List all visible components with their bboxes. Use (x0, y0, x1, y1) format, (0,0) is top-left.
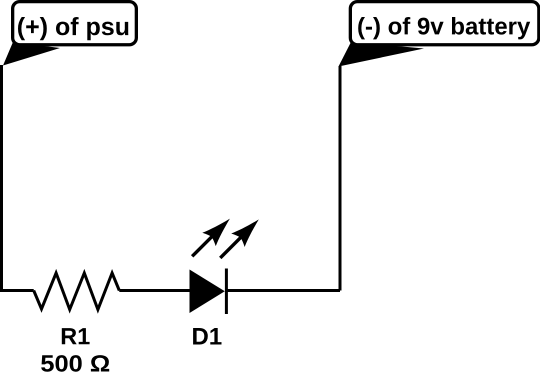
wire resistor to LED (119, 289, 189, 292)
label text (-) of 9v battery (358, 17, 530, 39)
wire right vertical (339, 66, 342, 291)
LED arrow 2 (214, 213, 266, 265)
label R1 (62, 328, 90, 344)
wire left vertical (0, 65, 3, 291)
label box (+) of psu (13, 2, 137, 45)
resistor R1 (34, 273, 120, 310)
label D1 (193, 328, 221, 345)
label text (+) of psu (18, 17, 128, 40)
label 500 ohm (41, 355, 109, 372)
wire LED to right vertical (226, 289, 340, 292)
LED arrow 1 (185, 212, 236, 263)
callout tail right (339, 42, 425, 67)
LED D1 (190, 269, 227, 315)
label box (-) of 9v battery (350, 2, 538, 45)
wire bottom left horizontal (0, 289, 34, 292)
callout tail left (3, 42, 60, 66)
